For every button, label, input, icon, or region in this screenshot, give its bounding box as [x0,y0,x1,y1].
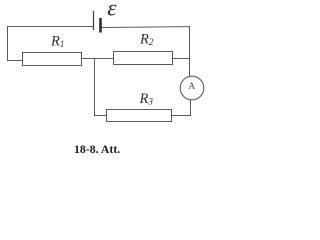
wire to R3 left [94,115,107,117]
wire to R3 right [172,115,192,117]
wire right vertical upper [189,26,191,77]
svg-text:R1: R1 [50,34,64,50]
svg-text:A: A [188,82,195,92]
resistor R2 [114,52,173,65]
wire R1 right to R2 left [82,58,114,60]
wire R2 right [173,58,191,60]
ammeter A1 circle [180,76,204,100]
svg-text:R3: R3 [139,91,154,107]
svg-text:18-8. Att.: 18-8. Att. [74,142,120,156]
wire left vertical [7,26,9,61]
resistor R1 [23,53,82,66]
resistor R3 [107,110,172,122]
wire top-right horizontal (battery right lead) [101,26,190,29]
wire right vertical lower [190,100,192,116]
node junction vertical to R3 [94,58,96,116]
wire top-left horizontal (battery left lead) [7,26,94,28]
svg-text:R2: R2 [139,32,154,48]
battery B1 long plate [93,11,95,30]
svg-text:ε: ε [107,0,117,21]
wire to R1 left [7,60,23,62]
battery B1 short thick plate [99,18,102,33]
